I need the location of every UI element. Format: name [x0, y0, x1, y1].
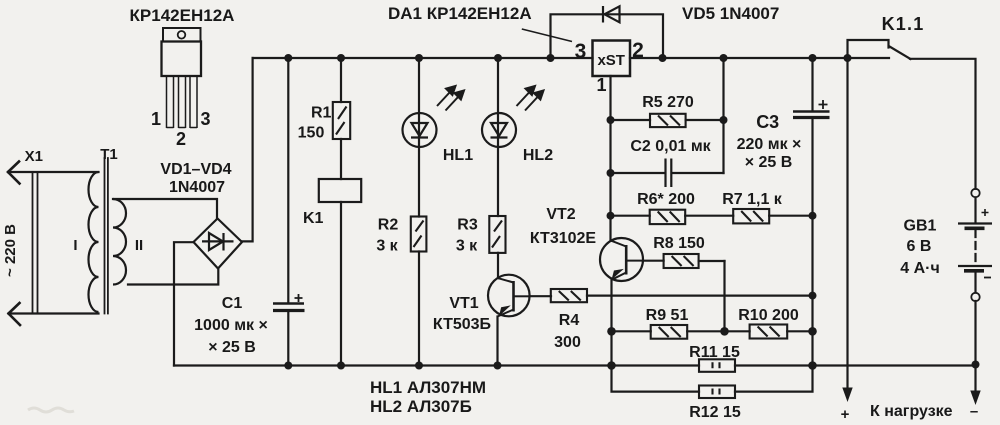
svg-text:VT2: VT2 — [546, 206, 575, 223]
svg-text:2: 2 — [632, 39, 644, 62]
svg-text:С3: С3 — [756, 112, 779, 132]
svg-text:–: – — [970, 403, 978, 420]
svg-text:6 В: 6 В — [907, 238, 932, 255]
svg-text:C2 0,01 мк: C2 0,01 мк — [630, 138, 711, 155]
svg-text:3: 3 — [200, 109, 210, 129]
svg-text:R4: R4 — [559, 312, 580, 329]
svg-text:HL1: HL1 — [443, 147, 473, 164]
svg-text:xST: xST — [597, 52, 625, 69]
svg-text:~ 220 В: ~ 220 В — [2, 224, 19, 277]
svg-text:R3: R3 — [457, 217, 478, 234]
svg-text:220 мк ×: 220 мк × — [737, 136, 802, 153]
svg-text:R6* 200: R6* 200 — [637, 191, 695, 208]
svg-text:HL1 АЛ307НМ: HL1 АЛ307НМ — [370, 378, 486, 397]
svg-text:3 к: 3 к — [376, 238, 398, 255]
svg-text:× 25 В: × 25 В — [745, 154, 793, 171]
svg-text:T1: T1 — [100, 146, 118, 163]
svg-text:VT1: VT1 — [449, 295, 478, 312]
svg-text:DA1 КР142ЕН12А: DA1 КР142ЕН12А — [388, 4, 532, 23]
svg-text:С1: С1 — [222, 295, 243, 312]
svg-text:II: II — [135, 237, 143, 254]
svg-text:I: I — [73, 237, 77, 254]
svg-text:1: 1 — [596, 75, 606, 95]
svg-text:R8 150: R8 150 — [653, 235, 705, 252]
svg-text:150: 150 — [298, 125, 325, 142]
svg-text:КТ3102Е: КТ3102Е — [530, 230, 597, 247]
svg-text:HL2 АЛ307Б: HL2 АЛ307Б — [370, 397, 472, 416]
svg-text:R7 1,1 к: R7 1,1 к — [722, 191, 783, 208]
svg-text:R12 15: R12 15 — [689, 404, 741, 421]
svg-text:× 25 В: × 25 В — [208, 339, 256, 356]
svg-text:4 А·ч: 4 А·ч — [900, 260, 940, 277]
svg-text:К нагрузке: К нагрузке — [870, 403, 953, 420]
svg-text:GB1: GB1 — [904, 218, 937, 235]
svg-text:K1.1: K1.1 — [882, 14, 925, 34]
svg-text:2: 2 — [176, 129, 186, 149]
svg-text:3 к: 3 к — [456, 238, 478, 255]
svg-text:3: 3 — [575, 40, 587, 63]
svg-text:R1: R1 — [311, 105, 332, 122]
svg-text:R5 270: R5 270 — [642, 94, 694, 111]
svg-text:1N4007: 1N4007 — [169, 179, 225, 196]
svg-text:R11 15: R11 15 — [689, 344, 740, 361]
svg-text:+: + — [841, 406, 850, 423]
svg-text:КТ503Б: КТ503Б — [433, 316, 491, 333]
svg-text:1: 1 — [151, 109, 161, 129]
svg-text:VD5 1N4007: VD5 1N4007 — [682, 4, 779, 23]
svg-text:HL2: HL2 — [523, 147, 553, 164]
svg-text:VD1–VD4: VD1–VD4 — [160, 161, 231, 178]
svg-text:КР142ЕН12А: КР142ЕН12А — [130, 6, 235, 25]
svg-text:300: 300 — [554, 334, 581, 351]
svg-text:1000 мк ×: 1000 мк × — [194, 317, 268, 334]
svg-text:R9 51: R9 51 — [646, 307, 689, 324]
svg-text:K1: K1 — [303, 210, 324, 227]
svg-text:X1: X1 — [25, 148, 43, 165]
svg-text:R2: R2 — [378, 217, 399, 234]
svg-text:R10 200: R10 200 — [738, 307, 799, 324]
